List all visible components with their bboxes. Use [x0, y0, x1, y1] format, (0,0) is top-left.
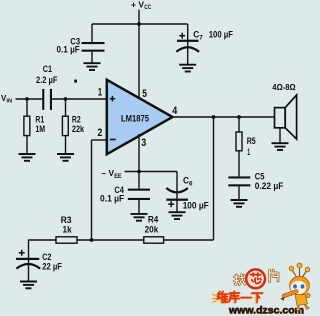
wire output pin4 — [173, 116, 275, 118]
junction VIN/R1 — [25, 97, 29, 101]
resistor R2 — [62, 99, 68, 154]
svg-text:6: 6 — [189, 181, 193, 187]
resistor R1 — [24, 99, 30, 154]
ground (C4) — [131, 214, 148, 221]
svg-text:R1: R1 — [35, 114, 44, 124]
op-amp minus input mark — [110, 139, 116, 141]
capacitor C3 — [82, 42, 105, 52]
wire C3 to ground — [91, 52, 93, 64]
capacitor C7 — [176, 24, 199, 65]
wire C4 to ground — [138, 200, 140, 214]
svg-text:R3: R3 — [61, 215, 72, 225]
label C7 — [193, 29, 203, 41]
op-amp U1 LM1875 — [107, 80, 173, 154]
watermark circle badge — [246, 269, 265, 288]
svg-text:LM1875: LM1875 — [121, 114, 149, 124]
wire pin2 — [92, 139, 107, 141]
svg-text:CC: CC — [144, 5, 152, 11]
svg-text:R2: R2 — [72, 114, 81, 124]
ground (C5) — [231, 200, 248, 207]
wire C3 stem — [91, 24, 93, 42]
capacitor C4 — [128, 189, 150, 200]
svg-text:C1: C1 — [43, 64, 52, 74]
svg-text:1: 1 — [247, 147, 250, 157]
svg-text:1: 1 — [98, 87, 102, 99]
ground (C2) — [20, 282, 37, 289]
watermark char zhao — [234, 275, 245, 285]
node +VCC label — [131, 0, 152, 11]
svg-text:22 µF: 22 µF — [42, 261, 62, 271]
svg-text:– V: – V — [102, 169, 115, 178]
op-amp plus input mark — [110, 96, 116, 102]
svg-text:4: 4 — [172, 105, 178, 117]
resistor R3 — [56, 237, 77, 243]
watermark logo — [212, 263, 311, 316]
svg-text:20k: 20k — [145, 224, 160, 234]
watermark sparkle dashes — [212, 294, 217, 302]
svg-text:5: 5 — [142, 88, 147, 100]
wire C5 to ground — [238, 186, 240, 200]
node VIN label — [1, 94, 12, 104]
resistor R5 — [236, 117, 242, 176]
svg-text:2.2 µF: 2.2 µF — [36, 75, 58, 85]
wire top rail — [92, 23, 188, 25]
watermark mascot — [281, 263, 311, 311]
svg-text:R4: R4 — [148, 215, 158, 225]
svg-text:EE: EE — [114, 174, 121, 180]
ground (C3) — [84, 63, 101, 70]
svg-text:+ V: + V — [131, 0, 145, 9]
wire feedback vertical right — [213, 117, 215, 240]
svg-text:0.1 µF: 0.1 µF — [100, 194, 125, 204]
wire feedback vertical left — [91, 140, 93, 240]
watermark char xin — [250, 273, 260, 283]
wire C1 to pin1 — [52, 98, 107, 100]
wire feedback bottom right — [164, 239, 214, 241]
wire R3 to C2 — [29, 239, 57, 241]
wire VEE to C6 — [125, 171, 178, 173]
svg-text:100 µF: 100 µF — [209, 29, 234, 39]
ground (R1) — [19, 154, 36, 161]
capacitor C2 — [16, 239, 40, 281]
wire pin3 stem — [138, 134, 140, 172]
watermark text weiku yixia — [217, 291, 262, 302]
capacitor C6 — [166, 172, 188, 213]
wire pin5 stem — [138, 24, 140, 99]
svg-text:7: 7 — [199, 35, 203, 41]
ground (C7) — [179, 65, 196, 72]
junction C1/R2 — [64, 97, 68, 101]
wire VCC stem — [138, 10, 140, 25]
svg-text:22k: 22k — [72, 124, 85, 134]
watermark text weiku yixia shadow — [216, 292, 261, 303]
speaker LS1 — [275, 95, 297, 143]
junction VCC — [137, 22, 141, 26]
label C6 — [183, 175, 193, 187]
svg-text:100 µF: 100 µF — [183, 201, 209, 211]
junction output/feedback — [212, 115, 216, 119]
capacitor C5 — [228, 176, 250, 186]
svg-text:R5: R5 — [247, 136, 256, 146]
wire VIN to C1 — [16, 98, 43, 100]
junction feedback node — [90, 238, 94, 242]
svg-text:0.22 µF: 0.22 µF — [255, 181, 284, 191]
watermark char pian — [270, 270, 278, 282]
svg-text:0.1 µF: 0.1 µF — [57, 45, 81, 55]
junction VEE node — [137, 170, 141, 174]
wire C4 top stem — [138, 172, 140, 189]
junction output/R5 — [237, 115, 241, 119]
ground (speaker) — [272, 143, 289, 150]
svg-text:3: 3 — [141, 137, 146, 149]
capacitor C1 — [42, 89, 52, 110]
ground (C6) — [169, 212, 186, 219]
node -VEE label — [102, 169, 122, 180]
svg-text:1M: 1M — [35, 124, 45, 134]
svg-text:www.dzsc.com: www.dzsc.com — [228, 305, 304, 316]
svg-text:1k: 1k — [63, 224, 73, 234]
svg-text:4Ω-8Ω: 4Ω-8Ω — [272, 82, 296, 92]
ground (R2) — [57, 154, 74, 161]
svg-text:2: 2 — [97, 127, 102, 139]
svg-text:IN: IN — [6, 98, 12, 104]
wire R3 to R4 — [77, 239, 144, 241]
resistor R4 — [144, 237, 164, 243]
stray dot mark — [74, 80, 77, 83]
